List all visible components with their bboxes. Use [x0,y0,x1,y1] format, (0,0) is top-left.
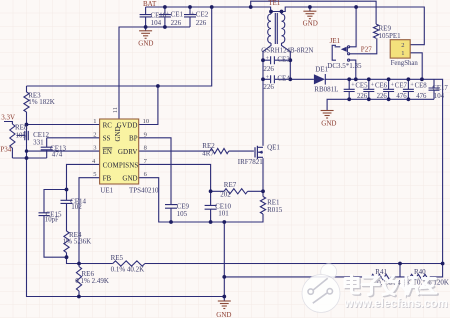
svg-text:RE2: RE2 [202,142,215,150]
wire top bridge BAT to RE9 [251,1,376,24]
wire R41 R40 row [224,264,442,277]
wire SS pin2 [47,137,100,139]
svg-text:10: 10 [143,118,150,125]
wire QE1 source to RE1 [262,158,264,196]
svg-text:226: 226 [196,19,207,27]
ic UE1 pin names [103,121,139,182]
svg-text:CE5: CE5 [355,83,368,90]
wire JE1 middle to RE9 P27 [350,38,377,54]
capacitor CE6 [363,79,374,99]
svg-text:R40: R40 [414,268,426,276]
svg-text:8: 8 [144,145,147,152]
wire BAT cap bottom rail y=27 and pin11 drop [119,27,190,119]
svg-text:3.3V: 3.3V [1,113,15,121]
svg-text:CE7: CE7 [395,83,408,90]
capacitor CE5 [344,79,355,99]
svg-text:226: 226 [357,93,368,100]
svg-text:RE7: RE7 [224,181,237,189]
svg-text:PE1: PE1 [389,32,401,40]
svg-text:GND: GND [303,20,318,28]
svg-text:105: 105 [177,210,188,218]
svg-text:102: 102 [71,203,82,211]
svg-text:RE9: RE9 [379,24,392,32]
capacitor CE1 [159,7,171,27]
svg-text:CE1: CE1 [171,11,184,19]
watermark chinese title shadows [346,277,437,296]
transistor QE1 [255,146,263,159]
svg-text:GND: GND [321,120,336,128]
svg-text:GDRV: GDRV [118,148,138,156]
wire transformer bottom leads [263,43,290,60]
capacitor CE8 [403,79,414,99]
svg-text:202: 202 [220,190,231,198]
capacitor CE7 [383,79,394,99]
svg-text:226: 226 [263,65,274,73]
resistor RE5 [113,261,145,266]
svg-text:GND: GND [138,39,153,47]
svg-text:+: + [166,12,170,18]
wire central gnd drop x=224.3 [223,222,225,297]
wire QE1 drain column [262,60,264,146]
wire left bus x=26.5 and bottom gnd rail [27,86,225,297]
wire GND pin6 to local rail y=222 [139,178,263,222]
svg-text:331: 331 [33,138,44,146]
fan connector PE1 body [390,40,410,58]
svg-text:DC3.5*1.35: DC3.5*1.35 [327,62,362,70]
svg-text:101: 101 [218,210,229,218]
resistor RE4 [64,231,69,253]
svg-text:R41: R41 [375,268,387,276]
connector JE1 [332,45,349,61]
svg-text:104: 104 [434,93,445,100]
wire RE6 bottom [78,291,80,297]
wire CE15 bracket [44,190,67,258]
svg-text:CE4: CE4 [277,74,290,82]
svg-text:2: 2 [93,131,96,138]
svg-text:4R7: 4R7 [202,150,214,158]
wire VDD feed: BAT down x=211.7, left y=86, to pin10 riser [27,7,212,86]
resistor R40 [410,274,430,279]
svg-text:R015: R015 [267,206,283,214]
capacitor CE4 [271,75,275,83]
svg-text:474: 474 [52,151,63,159]
transformer TE1 [268,13,285,44]
svg-text:1: 1 [93,118,96,125]
wire ISNS pin7 down [139,164,211,222]
svg-text:RE8: RE8 [15,124,28,132]
svg-text:BAT: BAT [143,0,157,8]
wire 3.3V to RE8 [4,122,12,159]
resistor RE2 [210,149,229,154]
svg-text:CE3: CE3 [277,55,290,63]
wire P34 row y=158 [12,157,46,159]
junction dots left bus and comp network [25,123,81,299]
svg-text:P34: P34 [0,145,11,153]
watermark chinese title 电子发烧友 [345,276,436,295]
svg-text:476: 476 [416,93,427,100]
svg-text:9: 9 [144,131,147,138]
svg-text:476: 476 [396,93,407,100]
svg-text:COMPISNS: COMPISNS [103,161,139,169]
svg-text:105: 105 [379,32,390,40]
transistor QE1 arrow [258,151,262,154]
diode DE1 [324,74,326,85]
wire ladder right vertical to diode [290,60,314,79]
capacitor CE3 [271,56,275,64]
wire RE7 leads [211,190,263,192]
diode DE1 body [314,74,325,84]
wire CE3 row [263,59,290,61]
wire JE1 sleeve to VOUT rail [350,60,356,79]
svg-text:GND: GND [122,175,137,183]
svg-text:IRF7821: IRF7821 [238,158,263,166]
wire GDRV pin8 to RE2 to QE1 gate [139,150,254,152]
svg-text:www.elecfans.com: www.elecfans.com [344,297,448,310]
svg-text:104: 104 [151,19,162,27]
capacitor CE13 [41,138,53,158]
svg-text:CE2: CE2 [196,11,209,19]
svg-text:1% 5.36K: 1% 5.36K [63,237,91,245]
wire pin10 GVDD [139,86,158,125]
svg-text:GND: GND [114,126,122,141]
ground main bottom [218,297,231,309]
wire RE5 row long feedback line [79,263,443,265]
resistor RE3 [24,92,29,112]
svg-text:0.1% 40.2K: 0.1% 40.2K [111,265,145,273]
ground output caps [321,111,334,119]
ground on mid rail [303,7,316,19]
capacitor CE17 [429,79,440,99]
svg-text:FB: FB [103,175,112,183]
svg-text:226: 226 [171,19,182,27]
svg-text:226: 226 [377,93,388,100]
svg-text:CE17: CE17 [432,85,448,92]
capacitor CE12 [25,131,29,140]
svg-text:FengShan: FengShan [391,60,419,67]
svg-text:11: 11 [112,107,119,113]
resistor RE6 [76,267,81,292]
watermark logo discs [302,264,340,313]
wire transformer top stubs [271,12,282,15]
resistor R41 [371,274,391,279]
svg-text:EN: EN [103,148,112,156]
svg-text:0.1% 2.49K: 0.1% 2.49K [75,277,109,285]
svg-text:RB081L: RB081L [314,86,338,94]
capacitor CE10 [205,205,217,209]
wire VOUT rail from diode to right edge drop [325,79,442,263]
capacitor CE2 [184,7,196,27]
ground near CE16 [139,27,152,38]
resistor RE9 [374,24,379,38]
wire CE12 lead [17,134,25,136]
wire PE1 pin1 to VOUT rail [410,53,422,80]
svg-text:BP: BP [129,135,138,143]
ic UE1 EN overline [103,147,113,149]
capacitor CE16 [140,7,152,27]
wire JE1 tip to BAT [350,7,356,47]
svg-text:2: 2 [401,42,404,49]
svg-text:5: 5 [93,171,96,178]
svg-text:SS: SS [103,135,111,143]
junction dots feedback divider [222,262,444,299]
svg-text:QE1: QE1 [267,144,280,152]
resistor RE1 [260,197,265,215]
wire RC pin1 [27,124,100,126]
op-amp U1 ic UE1 TPS40210 body [100,119,139,184]
resistor RE8 [10,124,15,148]
junction dots BAT rail [144,5,358,88]
capacitor CE15 [39,213,50,216]
svg-text:CE8: CE8 [415,83,428,90]
capacitor CE14 [61,200,73,203]
wire EN pin3 [27,150,100,152]
ic UE1 pin numbers [92,107,149,178]
capacitor CE9 [165,205,177,209]
svg-text:3: 3 [93,145,96,152]
svg-text:226: 226 [263,83,274,91]
svg-text:UE1: UE1 [100,187,113,195]
svg-text:TE1: TE1 [269,0,281,7]
wire BAT rail y=7 with transformer notch, to PE1 pin2 riser [146,7,425,45]
resistor RE7 [224,189,248,194]
wire cap bottom rail y=99.3 with gnd stem [327,99,434,110]
svg-text:RE5: RE5 [111,254,124,262]
svg-text:P27: P27 [361,45,372,53]
svg-text:1: 1 [401,50,404,57]
svg-text:GND: GND [216,311,231,318]
wire divider tap stub [399,264,401,277]
svg-text:JE1: JE1 [330,37,341,45]
junction dots switch and gnd rail [169,58,292,224]
wire BP pin9 to CE9 [139,138,171,222]
wire COMP pin4 net down to CE14/RE4 [67,164,100,263]
svg-text:105: 105 [16,132,27,140]
wire FB pin5 down to divider node [79,178,100,267]
junction dots output rails [347,77,423,101]
svg-text:CE6: CE6 [375,83,388,90]
svg-text:GSRH124B-8R2N: GSRH124B-8R2N [261,47,313,54]
svg-text:10pF: 10pF [45,217,59,224]
svg-text:1% 182K: 1% 182K [28,98,55,106]
svg-text:RC: RC [103,121,113,129]
wire CE4 row [263,78,290,80]
svg-text:TPS40210: TPS40210 [129,187,159,195]
